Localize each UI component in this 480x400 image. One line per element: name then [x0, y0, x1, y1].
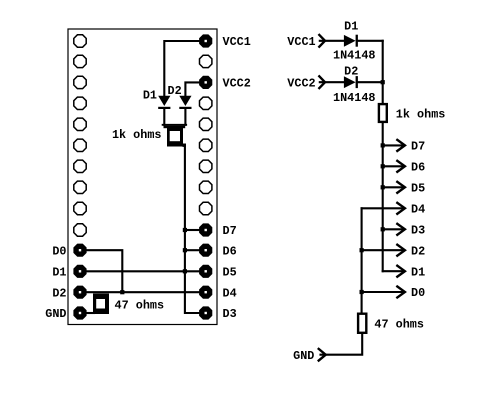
svg-text:47 ohms: 47 ohms: [115, 298, 165, 312]
module pad D2 (left row 13): [73, 286, 86, 299]
wire D1 cathode down: [163, 109, 165, 125]
svg-text:D2: D2: [168, 84, 182, 98]
wire VCC1 to diode D1: [320, 40, 345, 42]
module pad NC right row 5: [200, 118, 212, 130]
module pad NC left row 9: [74, 202, 86, 214]
wire to pin D0: [362, 291, 404, 293]
wire VCC2 pad to diode D2 anode: [185, 82, 199, 95]
module pad NC left row 7: [74, 160, 86, 172]
junction rail to D5: [183, 269, 187, 273]
module pad NC left row 6: [74, 139, 86, 151]
resistor R2 47 ohms body (module): [93, 294, 109, 315]
pin arrow D5: [397, 182, 405, 193]
connector pin GND: [319, 349, 326, 361]
wire rail to D6 pad: [186, 249, 199, 251]
wire D0 pad over to D2-D4 net: [87, 250, 122, 292]
svg-text:VCC2: VCC2: [287, 76, 315, 90]
svg-text:D4: D4: [223, 286, 237, 300]
module pad D0 (left row 11): [73, 244, 86, 257]
svg-text:VCC1: VCC1: [287, 35, 315, 49]
svg-text:D7: D7: [411, 140, 425, 154]
module pad D7 (right row 10): [199, 223, 212, 236]
svg-text:1k ohms: 1k ohms: [112, 128, 162, 142]
module pad NC right row 6: [200, 139, 212, 151]
wire D2 cathode down: [184, 109, 186, 125]
wire to pin D5: [383, 186, 404, 188]
wire D2 cathode to VCC rail: [358, 81, 383, 83]
module pad GND (left row 14): [73, 306, 86, 319]
module pad D4 (right row 13): [199, 286, 212, 299]
pin arrow D0: [397, 287, 405, 298]
module pad D1 (left row 12): [73, 265, 86, 278]
diode D1 (module): [158, 96, 170, 109]
svg-text:D1: D1: [143, 89, 157, 103]
module pad NC right row 4: [200, 97, 212, 109]
wire to pin D1: [383, 270, 404, 272]
wire 1k resistor output rail down to D3 pad: [185, 145, 199, 314]
module pad NC left row 8: [74, 181, 86, 193]
wire to pin D3: [383, 228, 404, 230]
svg-text:D1: D1: [344, 20, 358, 34]
svg-text:D3: D3: [411, 223, 425, 237]
svg-text:GND: GND: [293, 349, 314, 363]
svg-text:47 ohms: 47 ohms: [374, 318, 424, 332]
svg-text:D5: D5: [411, 181, 425, 195]
pin arrow D6: [397, 161, 405, 172]
junction VCC2 onto VCC rail: [381, 80, 385, 84]
module outline U1 (14-pin DIP module): [68, 29, 217, 325]
junction rail to D0: [360, 290, 364, 294]
wire 47 ohms to GND connector: [321, 334, 363, 355]
svg-text:D2: D2: [344, 64, 358, 78]
module pad NC right row 9: [200, 202, 212, 214]
junction D0 branch onto D2-D4 wire: [120, 290, 124, 294]
wire VCC rail upper segment: [382, 41, 384, 104]
junction rail to D6: [381, 164, 385, 168]
junction rail to D7: [183, 228, 187, 232]
junction rail to D5: [381, 185, 385, 189]
svg-text:D0: D0: [411, 286, 425, 300]
module pad NC right row 7: [200, 160, 212, 172]
svg-text:D1: D1: [411, 265, 425, 279]
module pad NC right row 8: [200, 181, 212, 193]
junction rail to D3: [381, 227, 385, 231]
resistor R3 1k (schematic): [379, 104, 387, 122]
wire D1 cathode to VCC rail: [358, 40, 383, 42]
module pad NC left row 5: [74, 118, 86, 130]
pin arrow D3: [397, 224, 405, 235]
wire pulldown rail: [361, 208, 363, 313]
wire to pin D6: [383, 165, 404, 167]
wire GND pad to 47 ohm resistor: [87, 312, 94, 314]
diode D2 (module): [179, 96, 191, 109]
module pad D5 (right row 12): [199, 265, 212, 278]
junction rail to D2: [360, 248, 364, 252]
wire joining D1 and D2 cathodes: [163, 124, 187, 126]
module pad D6 (right row 11): [199, 244, 212, 257]
svg-text:D7: D7: [223, 224, 237, 238]
module pad NC left row 3: [74, 76, 86, 88]
svg-text:VCC1: VCC1: [223, 35, 251, 49]
module pad NC left row 2: [74, 55, 86, 67]
wire VCC2 to diode D2: [320, 81, 345, 83]
svg-text:D2: D2: [52, 286, 66, 300]
svg-text:D6: D6: [223, 244, 237, 258]
pin arrow D2: [397, 245, 405, 256]
svg-text:D2: D2: [411, 244, 425, 258]
wire to pin D2: [362, 249, 404, 251]
wire rail to D7 pad: [186, 229, 199, 231]
wire to pin D4: [362, 207, 404, 209]
module pad VCC1 (right row 1): [199, 34, 212, 47]
pin arrow D1: [397, 266, 405, 277]
module pad D3 (right row 14): [199, 306, 212, 319]
svg-text:D1: D1: [52, 265, 66, 279]
wire to pin D7: [383, 144, 404, 146]
svg-text:GND: GND: [45, 307, 66, 321]
svg-text:D3: D3: [223, 307, 237, 321]
svg-text:D6: D6: [411, 160, 425, 174]
diode D1 1N4148 (schematic): [344, 35, 358, 47]
svg-text:VCC2: VCC2: [223, 77, 251, 91]
svg-text:D0: D0: [52, 244, 66, 258]
connector pin VCC1: [319, 35, 325, 47]
wire VCC1 pad to diode D1 anode: [164, 41, 199, 96]
pin arrow D4: [397, 203, 405, 214]
module pad NC left row 10: [74, 224, 86, 236]
connector pin VCC2: [319, 76, 325, 88]
module pad NC left row 4: [74, 97, 86, 109]
junction rail to D7: [381, 143, 385, 147]
module pad NC right row 2: [200, 55, 212, 67]
module pad NC left row 1: [74, 35, 86, 47]
svg-text:D4: D4: [411, 202, 425, 216]
resistor R1 1k body (module): [164, 126, 186, 147]
wire D1 pad to D5 pad: [87, 270, 199, 272]
svg-text:1k ohms: 1k ohms: [396, 107, 446, 121]
diode D2 1N4148 (schematic): [344, 76, 358, 88]
wire D2 pad to D4 pad: [87, 291, 199, 293]
module pad VCC2 (right row 3): [199, 76, 212, 89]
svg-text:1N4148: 1N4148: [333, 91, 375, 105]
wire VCC rail lower segment: [382, 123, 384, 271]
svg-text:1N4148: 1N4148: [333, 48, 375, 62]
svg-text:D5: D5: [223, 265, 237, 279]
junction rail to D6: [183, 248, 187, 252]
resistor R4 47 ohms (schematic): [358, 314, 366, 333]
pin arrow D7: [397, 140, 405, 151]
